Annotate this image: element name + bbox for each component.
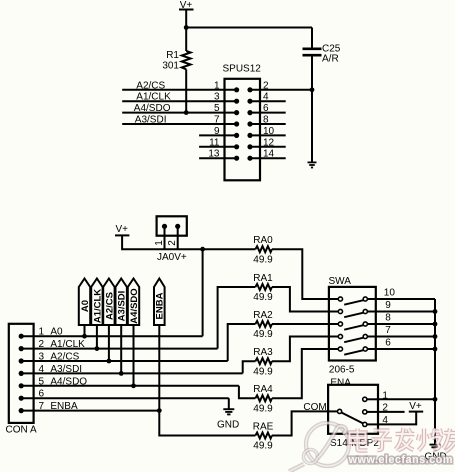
- wire pin3 A2/CS: [21, 360, 228, 362]
- node A3/SDI junction: [119, 371, 124, 376]
- net label A3/SDI: [116, 279, 128, 326]
- wire ENA pin1 inside: [367, 398, 378, 400]
- svg-text:49.9: 49.9: [253, 366, 273, 377]
- wire pin10 stub: [250, 134, 286, 136]
- node A1/CLK junction: [95, 346, 100, 351]
- svg-text:3: 3: [214, 92, 220, 103]
- switch SWA s2: [338, 309, 367, 317]
- connector SPUS12: [223, 64, 262, 181]
- wire RA1 left to A1/CLK: [218, 287, 256, 349]
- wire pin2 to C25 net: [250, 89, 312, 91]
- resistor RA1: [253, 273, 273, 303]
- watermark char you: [443, 429, 455, 452]
- svg-text:7: 7: [214, 115, 220, 126]
- resistor R1: [162, 50, 190, 72]
- power V+ ENA: [409, 401, 423, 412]
- svg-text:A3/SDI: A3/SDI: [117, 291, 128, 322]
- wire A4/SDO pin5: [122, 112, 236, 114]
- svg-text:A4/SDO: A4/SDO: [129, 288, 140, 323]
- svg-text:GND: GND: [217, 420, 239, 431]
- switch SWA s1: [338, 297, 367, 305]
- svg-text:R1: R1: [166, 50, 179, 61]
- resistor RA0: [253, 235, 273, 265]
- wire SWA pin8: [367, 323, 435, 325]
- svg-text:49.9: 49.9: [253, 292, 273, 303]
- ground middle: [217, 409, 239, 430]
- svg-text:9: 9: [385, 300, 391, 311]
- svg-text:CON A: CON A: [6, 425, 37, 436]
- svg-text:9: 9: [214, 126, 220, 137]
- watermark char fa: [396, 428, 415, 451]
- svg-text:2: 2: [382, 403, 388, 414]
- ground top: [308, 162, 317, 167]
- wire pin11 stub: [199, 146, 237, 148]
- net label A0: [79, 279, 91, 326]
- svg-text:206-5: 206-5: [329, 364, 355, 375]
- wire A3/SDI drop: [120, 325, 122, 373]
- svg-text:7: 7: [385, 325, 391, 336]
- wire V+ drop: [122, 235, 255, 249]
- resistor RA2: [253, 310, 273, 340]
- svg-text:ENA: ENA: [330, 378, 351, 389]
- svg-text:A3/SDI: A3/SDI: [50, 364, 82, 375]
- svg-text:V+: V+: [115, 224, 128, 235]
- svg-text:6: 6: [385, 338, 391, 349]
- wire pin7 ENBA: [21, 410, 159, 412]
- svg-text:ENBA: ENBA: [155, 292, 166, 319]
- svg-text:10: 10: [384, 288, 396, 299]
- svg-text:1: 1: [154, 240, 165, 246]
- pin dots SPUS12 right column: [247, 87, 252, 161]
- wire RA3 to SWA row7: [272, 337, 339, 362]
- svg-text:RA2: RA2: [253, 310, 273, 321]
- node RA0 junction: [200, 247, 205, 252]
- net label A4/SDO: [128, 279, 140, 326]
- svg-text:13: 13: [208, 149, 220, 160]
- svg-text:A2/CS: A2/CS: [104, 292, 115, 320]
- resistor RAE: [253, 421, 274, 451]
- svg-text:7: 7: [39, 401, 45, 412]
- switch SWA: [329, 276, 376, 375]
- svg-text:RAE: RAE: [253, 421, 274, 432]
- wire A4/SDO drop: [133, 325, 135, 386]
- svg-text:6: 6: [39, 389, 45, 400]
- svg-text:A0: A0: [80, 300, 91, 312]
- wire C25 to pin2 junction: [311, 55, 313, 90]
- svg-text:1: 1: [39, 327, 45, 338]
- wire A2/CS pin1: [122, 89, 236, 91]
- svg-text:4: 4: [263, 92, 269, 103]
- svg-text:49.9: 49.9: [253, 329, 273, 340]
- svg-text:SWA: SWA: [329, 276, 352, 287]
- svg-text:4: 4: [382, 415, 388, 426]
- svg-text:www.elecfans.com: www.elecfans.com: [348, 454, 453, 466]
- ground bottom right: [425, 445, 447, 463]
- svg-text:49.9: 49.9: [253, 403, 273, 414]
- wire JA0V+ pin1: [164, 226, 166, 249]
- svg-text:49.9: 49.9: [253, 441, 273, 452]
- watermark char dian: [350, 429, 368, 451]
- svg-text:1: 1: [214, 80, 220, 91]
- wire pin5 A4/SDO: [21, 385, 239, 387]
- node ENBA junction: [157, 408, 162, 413]
- wire pin8 stub: [250, 123, 286, 125]
- svg-text:RA3: RA3: [253, 347, 273, 358]
- wire pin2 A1/CLK: [21, 348, 217, 350]
- wire SWA pin6: [367, 348, 435, 350]
- node pin2 junction: [310, 87, 315, 92]
- svg-text:2: 2: [263, 80, 269, 91]
- svg-text:COM: COM: [303, 402, 326, 413]
- wire A3/SDI pin7: [122, 123, 236, 125]
- wire RA2 to SWA row8: [272, 323, 339, 325]
- wire RA4 left to A4/SDO: [239, 386, 256, 399]
- wire JA0V+ pin2: [177, 226, 179, 249]
- wire pin1 A0: [21, 335, 202, 337]
- svg-text:ENBA: ENBA: [50, 401, 78, 412]
- wire pin4 A3/SDI: [21, 372, 243, 374]
- wire RA1 to SWA row9: [272, 287, 339, 312]
- wire COM into box: [328, 410, 338, 412]
- svg-text:8: 8: [385, 313, 391, 324]
- svg-text:11: 11: [209, 137, 220, 148]
- wire pin2 junction to ground: [311, 90, 313, 162]
- wire RA3 left to A3/SDI: [243, 361, 256, 373]
- wire ENA pin2 inside: [367, 411, 378, 413]
- node V+ junction: [184, 25, 189, 30]
- wire A0 drop: [84, 325, 86, 336]
- svg-text:3: 3: [39, 352, 45, 363]
- pin dots CON A: [19, 334, 24, 414]
- wire pin9 stub: [199, 134, 237, 136]
- wire ENA pin1 to bus: [378, 398, 435, 400]
- svg-text:SPUS12: SPUS12: [223, 64, 262, 75]
- wire SWA pin9: [367, 311, 435, 313]
- power V+ lower left: [115, 224, 129, 236]
- watermark char zi: [372, 431, 393, 451]
- resistor RA4: [253, 384, 273, 414]
- wire A1/CLK pin3: [122, 100, 236, 102]
- svg-text:8: 8: [263, 115, 269, 126]
- switch SWA s4: [338, 334, 367, 342]
- svg-text:10: 10: [263, 126, 275, 137]
- watermark char shao: [418, 429, 442, 451]
- watermark url: [348, 454, 453, 466]
- svg-text:4: 4: [39, 364, 45, 375]
- pin dots SPUS12 left column: [234, 87, 239, 161]
- wire A1/CLK drop: [96, 325, 98, 349]
- net label A2/CS: [103, 279, 115, 326]
- svg-text:V+: V+: [409, 401, 422, 412]
- switch SWA s5: [338, 347, 367, 355]
- wire SWA pin7: [367, 336, 435, 338]
- pin labels CON A: [39, 327, 88, 412]
- svg-text:RA1: RA1: [253, 273, 273, 284]
- node R1 A4/SDO junction: [184, 110, 189, 115]
- wire ENA pin4 inside: [367, 423, 378, 425]
- node A0 junction: [82, 334, 87, 339]
- node A2/CS junction: [107, 359, 112, 364]
- wire pin6 stub: [250, 112, 286, 114]
- wire pin6: [21, 397, 229, 399]
- capacitor C25: [303, 44, 341, 65]
- power V+ top: [179, 0, 194, 11]
- pin numbers SPUS12 right: [263, 80, 275, 159]
- wire ENBA drop: [158, 325, 160, 411]
- svg-text:A1/CLK: A1/CLK: [50, 339, 85, 350]
- pin numbers ENA: [382, 390, 388, 426]
- wire SWA pin10: [367, 298, 435, 300]
- wire RA2 left to A2/CS: [228, 324, 256, 361]
- switch ENA contacts: [338, 397, 367, 426]
- wire ENA pin4 to V+: [378, 412, 416, 425]
- pin numbers SWA: [384, 288, 396, 349]
- connector JA0V+: [154, 216, 187, 263]
- wire V+ to junction: [185, 10, 187, 52]
- svg-text:RA0: RA0: [253, 235, 273, 246]
- svg-text:2: 2: [39, 339, 45, 350]
- svg-text:A/R: A/R: [322, 54, 339, 65]
- svg-text:6: 6: [263, 103, 269, 114]
- svg-text:2: 2: [167, 240, 178, 246]
- svg-text:A2/CS: A2/CS: [50, 352, 79, 363]
- svg-text:A0: A0: [50, 327, 63, 338]
- resistor RA3: [253, 347, 273, 377]
- wire RAE to COM: [272, 411, 328, 435]
- watermark logo: [289, 423, 349, 472]
- svg-text:14: 14: [263, 149, 275, 160]
- wire RA4 to SWA row6: [272, 349, 339, 398]
- switch SWA s3: [338, 322, 367, 330]
- svg-text:JA0V+: JA0V+: [157, 252, 187, 263]
- wire right bus: [434, 299, 436, 444]
- svg-text:301: 301: [162, 61, 179, 72]
- svg-text:A4/SDO: A4/SDO: [50, 376, 87, 387]
- wire pin12 stub: [250, 146, 286, 148]
- wire V+ junction to C25 branch: [186, 27, 312, 29]
- svg-text:5: 5: [214, 103, 220, 114]
- wire pin13 stub: [199, 157, 237, 159]
- svg-text:49.9: 49.9: [253, 254, 273, 265]
- wire RAE left to ENBA: [159, 411, 255, 436]
- svg-text:5: 5: [39, 376, 45, 387]
- pin numbers SPUS12 left: [208, 80, 220, 159]
- net label ENBA: [154, 279, 166, 326]
- node A4/SDO junction: [131, 383, 136, 388]
- wire pin4 stub: [250, 100, 286, 102]
- svg-text:1: 1: [382, 390, 388, 401]
- svg-text:12: 12: [263, 137, 275, 148]
- wire A0 riser: [202, 249, 204, 336]
- node bus junctions: [433, 309, 438, 402]
- wire A2/CS drop: [108, 325, 110, 361]
- wire ENA pin2 stub: [378, 411, 405, 413]
- wire R1 to A4/SDO: [185, 69, 187, 112]
- svg-text:A1/CLK: A1/CLK: [92, 289, 103, 323]
- svg-text:RA4: RA4: [253, 384, 273, 395]
- switch ENA: [328, 378, 379, 449]
- wire RA0 to SWA row10: [272, 249, 339, 299]
- wire pin6 GND drop: [228, 398, 230, 409]
- connector CON A: [6, 324, 37, 436]
- wire pin14 stub: [250, 157, 286, 159]
- wire down to C25: [311, 28, 313, 49]
- net label A1/CLK: [91, 279, 103, 326]
